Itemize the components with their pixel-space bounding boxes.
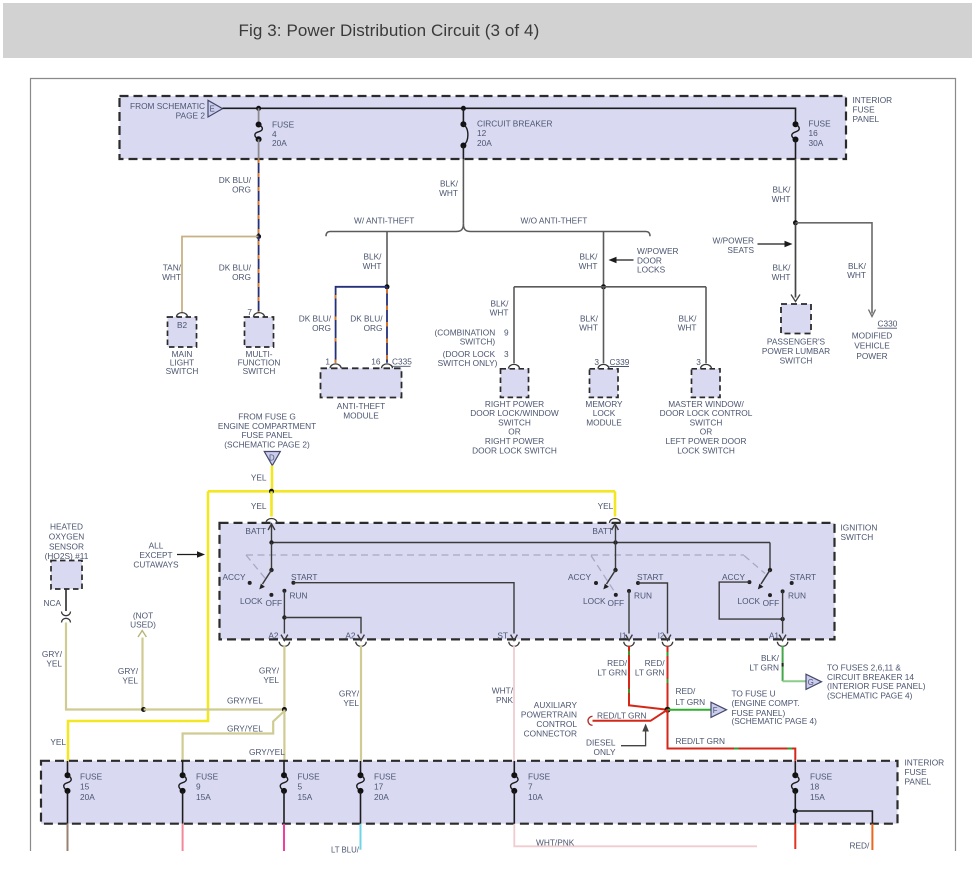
value label BLK/WHT: [678, 313, 698, 332]
svg-text:LOCK: LOCK: [583, 596, 606, 606]
switch 3 contacts: [722, 572, 816, 608]
wire: BLK/WHT from circuit breaker 12: [462, 159, 464, 224]
wire: light blue output of fuse 17: [360, 824, 362, 850]
wire: fuse 18 output with branch: [793, 809, 873, 824]
wire: GRY/YEL bus to A2 junction: [144, 708, 284, 710]
svg-text:GRY/: GRY/: [118, 666, 139, 676]
svg-text:30A: 30A: [809, 138, 824, 148]
svg-text:LT GRN: LT GRN: [676, 697, 706, 707]
svg-text:WHT: WHT: [439, 188, 458, 198]
terminal I2: [658, 631, 673, 647]
node junction door lock bus: [601, 284, 606, 289]
label: INTERIOR FUSE PANEL (bottom right): [905, 758, 945, 787]
svg-text:NCA: NCA: [43, 598, 61, 608]
wire: main feed bus in top panel: [223, 107, 796, 109]
wire: START 1 to ST terminal: [293, 583, 514, 634]
svg-text:WHT/: WHT/: [492, 686, 514, 696]
wire: DK BLU/ORG to anti-theft module pin 16: [386, 287, 388, 363]
svg-text:LOCK: LOCK: [240, 596, 263, 606]
svg-text:A1: A1: [769, 631, 780, 641]
value label BLK/WHT: [490, 298, 510, 317]
svg-text:ALL: ALL: [149, 541, 164, 551]
svg-text:RED/: RED/: [850, 841, 871, 851]
wire: RUN 3 to A1 terminal: [782, 591, 784, 633]
anti-theft module U1, pins 1, 16, connector C335: [321, 357, 413, 421]
terminal A2 (second): [345, 631, 366, 647]
svg-text:ACCY: ACCY: [222, 572, 246, 582]
svg-text:INTERIOR: INTERIOR: [905, 758, 945, 768]
wire: DK BLU/ORG to multi-function switch pin 7: [258, 237, 260, 313]
svg-text:C335: C335: [392, 357, 412, 367]
node label W/POWER SEATS with arrow: [713, 236, 793, 255]
svg-text:WHT: WHT: [772, 194, 791, 204]
svg-text:POWER LUMBAR: POWER LUMBAR: [762, 346, 830, 356]
svg-text:RUN: RUN: [290, 591, 308, 601]
ignition switch assembly: [220, 523, 835, 640]
svg-text:RUN: RUN: [788, 591, 806, 601]
switch 2 rotor: [603, 543, 617, 590]
svg-text:17: 17: [374, 782, 384, 792]
svg-text:MODIFIED: MODIFIED: [852, 331, 893, 341]
value label BLK/WHT: [772, 185, 792, 204]
svg-text:MODULE: MODULE: [586, 417, 622, 427]
svg-text:(SCHEMATIC PAGE 4): (SCHEMATIC PAGE 4): [827, 690, 913, 700]
svg-text:RED/: RED/: [607, 658, 628, 668]
node junction RED/LT GRN distribution: [665, 707, 671, 713]
svg-text:FROM SCHEMATIC: FROM SCHEMATIC: [130, 101, 205, 111]
value label DK BLU/ORG (pin 1): [299, 314, 332, 334]
value label BLK/WHT: [439, 179, 459, 199]
value label RED/LT GRN (I1): [597, 658, 627, 678]
svg-text:WHT: WHT: [579, 323, 598, 333]
svg-text:7: 7: [247, 307, 252, 317]
svg-text:G: G: [808, 678, 814, 687]
svg-text:WHT: WHT: [579, 261, 598, 271]
svg-text:BATT: BATT: [592, 526, 613, 536]
wire: RED/ branch output: [871, 824, 873, 850]
svg-text:YEL: YEL: [50, 737, 66, 747]
value label BLK/WHT: [363, 252, 383, 271]
switch 1 contacts ACCY/LOCK/OFF/RUN/START: [222, 572, 317, 608]
svg-text:EXCEPT: EXCEPT: [139, 550, 172, 560]
svg-text:WHT: WHT: [678, 323, 697, 333]
wire: RED output of fuse 18: [794, 824, 796, 849]
value label BLK/WHT: [772, 263, 792, 282]
svg-text:HEATED: HEATED: [50, 522, 83, 532]
svg-text:FUSE: FUSE: [905, 767, 928, 777]
svg-text:CIRCUIT BREAKER: CIRCUIT BREAKER: [477, 119, 552, 129]
svg-text:SWITCH: SWITCH: [841, 532, 874, 542]
svg-text:GRY/: GRY/: [259, 666, 280, 676]
svg-text:A2: A2: [268, 631, 279, 641]
wire: TAN/WHT branch to main light switch: [182, 237, 259, 313]
value label RED/LT GRN (I2): [635, 658, 665, 678]
svg-text:LOCK: LOCK: [738, 596, 761, 606]
svg-text:OXYGEN: OXYGEN: [49, 532, 85, 542]
wire: BLK/WHT to master window switch: [705, 287, 707, 364]
wire: GRY/YEL to fuse 9: [183, 711, 285, 761]
memory lock module, pin 3, connector C339: [585, 357, 629, 428]
inline connector below HO2S: [62, 612, 71, 623]
svg-text:W/ ANTI-THEFT: W/ ANTI-THEFT: [354, 216, 414, 226]
multi-function switch, pin 7: [238, 307, 281, 376]
wire: WHT/PNK from ST to fuse 7: [513, 646, 515, 761]
svg-text:3: 3: [594, 357, 599, 367]
fuse F16 (FUSE 16 30A): [792, 108, 831, 160]
svg-text:GRY/YEL: GRY/YEL: [249, 747, 285, 757]
svg-text:20A: 20A: [80, 792, 95, 802]
wire: door lock distribution bus: [514, 286, 706, 288]
wire: RUN 2 to I1 terminal: [628, 591, 630, 634]
mechanical linkage (dashed): [246, 555, 765, 591]
wire: WHT/PNK output of fuse 7: [514, 824, 757, 847]
svg-text:FUSE: FUSE: [80, 772, 103, 782]
wire: RED/LT GRN from I1: [629, 646, 668, 710]
wire: BLK/WHT to right power door lock switch: [513, 287, 515, 364]
terminal A1: [769, 631, 788, 647]
value label BLK/WHT: [579, 252, 599, 271]
svg-text:DK BLU/: DK BLU/: [219, 263, 252, 273]
svg-text:YEL: YEL: [598, 501, 614, 511]
value label BLK/WHT: [579, 313, 599, 332]
svg-text:15A: 15A: [298, 792, 313, 802]
wire: GRY/YEL from A2 (first): [283, 646, 285, 710]
svg-text:(SCHEMATIC PAGE 4): (SCHEMATIC PAGE 4): [732, 716, 818, 726]
wire: magenta output of fuse 5: [283, 824, 285, 851]
node junction power seats tap: [793, 220, 798, 225]
switch 1 rotor: [259, 543, 273, 590]
svg-text:YEL: YEL: [46, 658, 62, 668]
svg-text:16: 16: [809, 128, 819, 138]
svg-text:18: 18: [810, 782, 820, 792]
svg-text:PNK: PNK: [496, 695, 514, 705]
svg-text:WHT: WHT: [363, 261, 382, 271]
node junction at fuse 4 tap: [256, 106, 261, 111]
svg-text:ORG: ORG: [232, 272, 251, 282]
wire: pink output of fuse 9: [182, 824, 184, 851]
main light switch B2: [166, 313, 199, 376]
svg-text:FUSE: FUSE: [528, 772, 551, 782]
svg-text:A2: A2: [345, 631, 356, 641]
value label GRY/YEL: [42, 649, 63, 669]
value label TAN/WHT: [162, 263, 182, 283]
svg-text:DOOR LOCK SWITCH: DOOR LOCK SWITCH: [472, 445, 557, 455]
svg-text:9: 9: [196, 782, 201, 792]
svg-text:FUSE: FUSE: [853, 105, 876, 115]
svg-text:7: 7: [528, 782, 533, 792]
svg-text:5: 5: [298, 782, 303, 792]
passenger's power lumbar switch: [762, 304, 830, 366]
svg-text:DK BLU/: DK BLU/: [299, 314, 332, 324]
wire: GRY/YEL to fuse 5: [283, 710, 285, 762]
svg-text:DK BLU/: DK BLU/: [350, 314, 383, 324]
fuse F15 (FUSE 15 20A): [64, 761, 103, 824]
svg-text:E: E: [210, 105, 215, 114]
value label GRY/YEL: [259, 666, 280, 686]
svg-text:FUSE: FUSE: [298, 772, 321, 782]
svg-text:OFF: OFF: [608, 598, 625, 608]
wire: YEL from node D: [271, 466, 274, 492]
svg-text:CUTAWAYS: CUTAWAYS: [133, 560, 179, 570]
svg-text:YEL: YEL: [251, 473, 267, 483]
svg-text:ORG: ORG: [364, 323, 383, 333]
svg-text:OFF: OFF: [763, 598, 780, 608]
svg-text:DK BLU/: DK BLU/: [219, 175, 252, 185]
wire: DK BLU/ORG from fuse 4: [258, 159, 260, 237]
circuit breaker CB12 (CIRCUIT BREAKER 12 20A): [460, 108, 552, 159]
value label DK BLU/ORG (pin 16): [350, 314, 383, 334]
wire: RED/LT GRN to node F: [668, 709, 711, 711]
svg-text:GRY/YEL: GRY/YEL: [227, 724, 263, 734]
svg-text:POWER: POWER: [856, 351, 887, 361]
node label DIESEL ONLY with arrow: [586, 724, 649, 757]
wire: YEL long run to fuse 15: [68, 491, 208, 761]
right power door lock/window switch: [470, 364, 559, 455]
svg-text:LT GRN: LT GRN: [749, 662, 779, 672]
fuse F5 (FUSE 5 15A): [280, 761, 320, 824]
ignition switch section 2: BATT terminal: [592, 519, 620, 543]
fuse F18 (FUSE 18 15A): [792, 761, 833, 824]
svg-text:PANEL: PANEL: [853, 114, 880, 124]
svg-text:OFF: OFF: [266, 598, 283, 608]
fuse F7 (FUSE 7 10A): [511, 761, 551, 824]
svg-text:SWITCH: SWITCH: [780, 356, 813, 366]
auxiliary powertrain control connector: [521, 700, 593, 738]
terminal ST: [497, 631, 519, 647]
interior fuse panel (bottom): [41, 761, 898, 824]
svg-text:INTERIOR: INTERIOR: [853, 95, 893, 105]
svg-text:YEL: YEL: [122, 675, 138, 685]
fuse F4 (FUSE 4 20A): [255, 108, 295, 159]
value label GRY/YEL: [118, 666, 139, 686]
svg-text:C330: C330: [878, 319, 898, 329]
node label ALL EXCEPT CUTAWAYS with arrow: [133, 541, 205, 570]
svg-text:BLK/: BLK/: [761, 653, 780, 663]
svg-text:ORG: ORG: [232, 185, 251, 195]
wire: NCA lead from HO2S: [65, 589, 67, 611]
value label RED/LT GRN (to F): [676, 686, 706, 707]
svg-text:(SCHEMATIC PAGE 2): (SCHEMATIC PAGE 2): [224, 439, 310, 449]
wire: RED/LT GRN to auxiliary connector: [593, 710, 668, 721]
svg-text:RUN: RUN: [634, 591, 652, 601]
master window/door lock control switch, pin 3: [660, 357, 753, 456]
svg-text:WHT/PNK: WHT/PNK: [536, 837, 575, 847]
svg-text:TO FUSE U: TO FUSE U: [732, 689, 776, 699]
svg-text:VEHICLE: VEHICLE: [854, 340, 890, 350]
node junction DK BLU/ORG split: [256, 234, 261, 239]
svg-text:WHT: WHT: [772, 272, 791, 282]
svg-text:W/O ANTI-THEFT: W/O ANTI-THEFT: [521, 216, 588, 226]
svg-text:YEL: YEL: [263, 675, 279, 685]
svg-text:SEATS: SEATS: [727, 245, 754, 255]
svg-text:WHT: WHT: [490, 308, 509, 318]
svg-text:LT GRN: LT GRN: [635, 667, 665, 677]
svg-text:16: 16: [371, 357, 381, 367]
label: INTERIOR FUSE PANEL (top right): [853, 95, 893, 124]
svg-text:15: 15: [80, 782, 90, 792]
svg-text:IGNITION: IGNITION: [841, 523, 878, 533]
svg-text:1: 1: [325, 357, 330, 367]
node label W/POWER DOOR LOCKS with arrow: [609, 246, 679, 275]
ignition switch section 1: BATT terminal: [245, 519, 277, 543]
node (NOT USED) stub: [130, 610, 156, 637]
wire: YEL horizontal bus: [208, 490, 615, 493]
svg-text:ST: ST: [497, 631, 508, 641]
wire: GRY/YEL from A2 (second) to fuse 17: [360, 646, 362, 761]
switch 2 contacts: [568, 572, 664, 608]
node junction above anti-theft module: [385, 284, 390, 289]
node junction GRY/YEL left: [141, 707, 146, 712]
node junction at circuit breaker tap: [461, 106, 466, 111]
svg-text:MODULE: MODULE: [343, 411, 379, 421]
fuse F17 (FUSE 17 20A): [357, 761, 397, 824]
node junction GRY/YEL right: [282, 707, 287, 712]
value label BLK/LT GRN: [749, 653, 779, 673]
svg-text:ACCY: ACCY: [722, 572, 746, 582]
svg-text:Fig 3: Power Distribution Circ: Fig 3: Power Distribution Circuit (3 of …: [239, 21, 540, 40]
svg-text:FUSE: FUSE: [374, 772, 397, 782]
svg-text:15A: 15A: [810, 792, 825, 802]
svg-text:9: 9: [504, 327, 509, 337]
svg-text:ONLY: ONLY: [594, 747, 616, 757]
node junction yellow distribution: [269, 489, 274, 494]
svg-text:ANTI-THEFT: ANTI-THEFT: [337, 401, 385, 411]
svg-text:SWITCH: SWITCH: [243, 366, 276, 376]
wire: YEL to ignition BATT 1: [270, 491, 273, 516]
fuse F9 (FUSE 9 15A): [179, 761, 219, 824]
svg-text:DIESEL: DIESEL: [586, 737, 616, 747]
svg-text:BATT: BATT: [245, 526, 266, 536]
svg-text:CONNECTOR: CONNECTOR: [524, 728, 577, 738]
svg-text:PASSENGER'S: PASSENGER'S: [767, 337, 826, 347]
wire: BLK/WHT to passenger lumbar switch: [791, 223, 800, 302]
wire: GRY/YEL from HO2S connector: [66, 623, 144, 710]
interior fuse panel (top): [120, 96, 847, 159]
svg-text:F: F: [713, 706, 718, 715]
value label DK BLU/ORG: [219, 175, 252, 195]
svg-text:SWITCH: SWITCH: [166, 366, 199, 376]
node G: to fuses 2,6,11 & circuit breaker 14: [806, 663, 926, 701]
wire: RED/LT GRN to fuse 18: [668, 710, 796, 761]
svg-text:GRY/: GRY/: [339, 689, 360, 699]
wire: DK BLU/ORG to anti-theft module pin 1: [336, 287, 387, 363]
svg-text:RED/LT GRN: RED/LT GRN: [676, 736, 725, 746]
node D: FROM FUSE G feed: [218, 412, 316, 466]
svg-text:YEL: YEL: [251, 501, 267, 511]
wire: GRY/YEL from not-used stub: [141, 638, 143, 710]
svg-text:10A: 10A: [528, 792, 543, 802]
title bar: [3, 3, 972, 58]
svg-text:WHT: WHT: [162, 272, 181, 282]
svg-text:LT BLU/: LT BLU/: [331, 846, 360, 855]
connector C330, MODIFIED VEHICLE POWER: [852, 319, 898, 361]
svg-text:ACCY: ACCY: [568, 572, 592, 582]
svg-text:15A: 15A: [196, 792, 211, 802]
svg-text:LT GRN: LT GRN: [597, 667, 627, 677]
svg-text:START: START: [637, 572, 663, 582]
value label BLK/WHT: [847, 261, 867, 280]
wire: YEL to ignition BATT 2: [614, 491, 617, 516]
switch 3 rotor fed from bus: [758, 543, 772, 590]
wire: START 2 to I2 terminal: [638, 583, 668, 634]
svg-text:(ENGINE COMPT.: (ENGINE COMPT.: [732, 698, 800, 708]
svg-text:BLK/: BLK/: [440, 179, 459, 189]
svg-text:3: 3: [504, 349, 509, 359]
svg-text:12: 12: [477, 128, 487, 138]
label: IGNITION SWITCH: [841, 523, 878, 543]
wire: brown output of fuse 15: [67, 824, 69, 851]
wire: anti-theft option split bus: [326, 224, 650, 237]
svg-text:LOCKS: LOCKS: [637, 265, 666, 275]
wire: ACCY 3 branch: [719, 582, 785, 621]
svg-text:I2: I2: [658, 631, 665, 641]
wire: BLK/WHT drop to anti-theft junction: [386, 232, 388, 287]
svg-text:PANEL: PANEL: [905, 777, 932, 787]
node F: to fuse U: [711, 689, 817, 727]
svg-text:D: D: [269, 454, 275, 463]
wire: BLK/WHT from fuse 16: [795, 159, 797, 223]
svg-text:SWITCH ONLY): SWITCH ONLY): [438, 358, 498, 368]
svg-text:GRY/YEL: GRY/YEL: [227, 696, 263, 706]
svg-text:START: START: [790, 572, 816, 582]
svg-text:WHT: WHT: [847, 270, 866, 280]
svg-text:USED): USED): [130, 619, 156, 629]
svg-text:20A: 20A: [272, 138, 287, 148]
heated oxygen sensor HO2S #11: [45, 522, 89, 589]
terminal I1: [620, 631, 635, 647]
svg-text:RED/: RED/: [645, 658, 666, 668]
node E: FROM SCHEMATIC PAGE 2 arrow: [130, 100, 222, 120]
value label WHT/PNK: [492, 686, 514, 706]
svg-text:3: 3: [696, 357, 701, 367]
svg-text:RED/: RED/: [676, 686, 697, 696]
wire: BLK/WHT branch to modified vehicle power C330: [796, 223, 876, 317]
wire: BLK/WHT drop W/O anti-theft: [603, 232, 605, 287]
svg-text:ORG: ORG: [312, 323, 331, 333]
wire: BLK/WHT to memory lock module: [603, 287, 605, 364]
svg-text:LOCK SWITCH: LOCK SWITCH: [677, 445, 735, 455]
svg-text:B2: B2: [177, 320, 188, 330]
wire: RED/LT GRN from I2: [667, 646, 669, 710]
svg-text:SENSOR: SENSOR: [49, 542, 84, 552]
terminal A2 (first): [268, 631, 289, 647]
svg-text:RED/LT GRN: RED/LT GRN: [597, 710, 646, 720]
svg-text:20A: 20A: [374, 792, 389, 802]
svg-text:SWITCH): SWITCH): [460, 337, 496, 347]
svg-text:TAN/: TAN/: [163, 263, 182, 273]
svg-text:20A: 20A: [477, 138, 492, 148]
value label GRY/YEL: [339, 689, 360, 709]
svg-text:FUSE: FUSE: [196, 772, 219, 782]
wire: BLK/LT GRN from A1 to node G: [783, 646, 806, 681]
svg-text:GRY/: GRY/: [42, 649, 63, 659]
svg-text:PAGE 2: PAGE 2: [176, 111, 206, 121]
pin labels (COMBINATION SWITCH) 9 / (DOOR LOCK SWITCH ONLY) 3: [435, 327, 509, 368]
svg-text:START: START: [291, 572, 317, 582]
svg-text:C339: C339: [610, 357, 630, 367]
svg-text:FUSE: FUSE: [810, 772, 833, 782]
value label DK BLU/ORG (second): [219, 263, 252, 283]
wire: BATT feed bus inside ignition switch: [272, 542, 771, 544]
svg-text:YEL: YEL: [343, 698, 359, 708]
wire: RUN 1 to A2 terminals: [282, 591, 361, 634]
